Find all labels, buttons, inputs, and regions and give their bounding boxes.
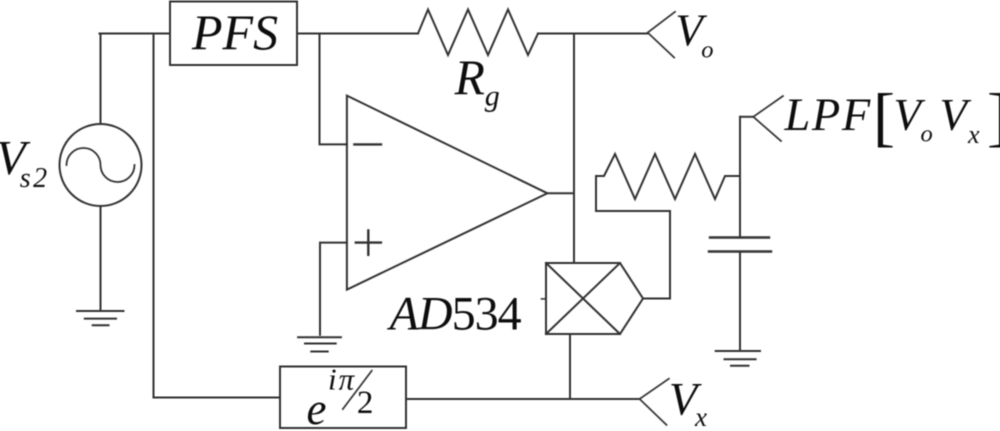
svg-text:s2: s2 <box>20 163 50 194</box>
resistor to LPF <box>596 154 740 199</box>
svg-text:AD534: AD534 <box>387 288 522 341</box>
voltage source Vs2 <box>60 124 142 206</box>
wire capacitor to ground <box>739 252 741 352</box>
svg-text:x: x <box>967 120 980 149</box>
phase shifter block e^(i pi/2) <box>280 367 406 429</box>
svg-text:[: [ <box>873 80 895 153</box>
op-amp AD534 <box>347 96 548 290</box>
wire inverting input drop <box>320 34 347 145</box>
wire non-inverting input to ground <box>320 243 347 335</box>
svg-text:V: V <box>940 90 972 140</box>
resistor Rg <box>418 10 538 56</box>
wire Rg to Vo terminal <box>538 33 648 35</box>
wire PFS output to Rg <box>297 33 418 35</box>
wire multiplier bottom lead <box>569 334 571 399</box>
ground below Vs2 <box>77 311 124 325</box>
svg-text:PFS: PFS <box>191 4 278 60</box>
wire output node vertical <box>573 34 575 264</box>
wire multiplier left stub <box>542 298 547 300</box>
wire op-amp output <box>547 192 574 194</box>
ground below op-amp non-inverting input <box>298 337 341 351</box>
svg-text:2: 2 <box>357 385 374 421</box>
svg-text:R: R <box>454 50 485 105</box>
wire multiplier output loop <box>596 176 670 299</box>
terminal arrow LPF <box>753 96 783 141</box>
wire bottom rail to Vx <box>406 398 640 400</box>
wire bottom left to phase box <box>154 397 281 399</box>
wire Vs2 top lead <box>100 34 102 125</box>
label Vo <box>675 5 713 63</box>
label e^(i pi/2) <box>307 361 374 431</box>
PFS block <box>170 2 297 66</box>
svg-text:o: o <box>921 120 933 147</box>
terminal arrow Vo <box>648 12 675 58</box>
wire top rail left <box>100 33 171 35</box>
label Vs2 <box>0 130 50 194</box>
label Rg <box>454 50 500 113</box>
wire feedback vertical left <box>153 34 155 398</box>
wire LPF node vertical <box>739 117 741 238</box>
wire LPF terminal stub <box>740 116 753 118</box>
multiplier <box>546 263 643 334</box>
svg-text:x: x <box>694 402 707 431</box>
svg-text:]: ] <box>987 80 1000 153</box>
svg-text:e: e <box>307 384 327 431</box>
svg-text:LPF: LPF <box>784 90 872 141</box>
label LPF[VoVx] <box>784 80 1000 153</box>
wire Vs2 bottom lead <box>100 206 102 311</box>
svg-text:g: g <box>485 80 500 113</box>
capacitor <box>709 238 771 252</box>
label Vx <box>669 374 707 431</box>
svg-text:iπ: iπ <box>328 361 356 396</box>
terminal arrow Vx <box>640 379 669 425</box>
svg-text:o: o <box>701 37 713 64</box>
ground below capacitor <box>716 351 760 366</box>
